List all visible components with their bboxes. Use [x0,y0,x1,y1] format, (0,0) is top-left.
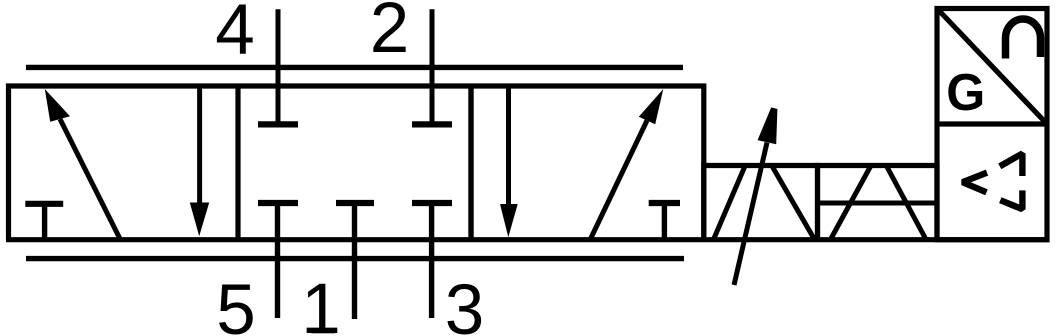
spring crossbar [818,201,938,206]
left cell diagonal arrow [45,89,121,241]
port 2 line [430,9,435,124]
proportional solenoid box [704,166,818,240]
solenoid left diagonal [714,166,746,240]
port 5 line [275,203,280,318]
port 5 blocked T [258,200,298,206]
encoder box diagonal [937,9,1047,125]
spring left leg [831,166,871,240]
svg-text:3: 3 [445,271,485,336]
top rail [26,65,683,70]
right cell down arrow [500,86,518,237]
bottom rail [26,256,684,261]
svg-text:2: 2 [370,0,410,68]
amplifier triangle chevron [963,173,988,193]
port 3 line [429,203,434,318]
svg-text:4: 4 [215,0,255,70]
port 4 blocked T [258,121,298,127]
spring box [818,166,938,240]
port 3 blocked T [412,200,452,206]
svg-text:G: G [946,63,985,121]
svg-text:5: 5 [216,271,256,336]
port 1 line [352,203,357,319]
right cell diagonal arrow [590,89,663,240]
solenoid right diagonal [772,166,815,240]
spring right leg [887,166,927,240]
bottom edge long line [6,237,1050,242]
valve body outline [9,86,704,240]
left cell down arrow [190,86,209,236]
port 2 blocked T [412,121,452,127]
right cell blocked port T [649,203,680,240]
amplifier triangle top corner [1000,154,1023,177]
displacement encoder box [937,9,1047,240]
left cell blocked port T [25,204,63,240]
svg-text:1: 1 [301,270,341,336]
port 1 blocked T [336,200,374,206]
cell divider 1 [235,86,240,240]
amplifier triangle bottom corner [1000,190,1022,209]
encoder arch symbol [1006,19,1041,59]
encoder box divider [937,121,1047,126]
manual override arrow [734,107,777,285]
port 4 line [276,9,281,124]
cell divider 2 [468,86,473,240]
